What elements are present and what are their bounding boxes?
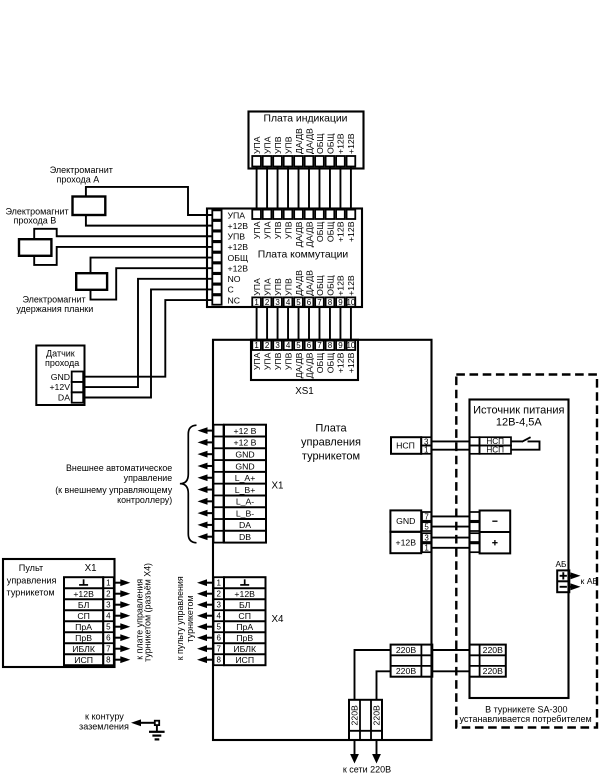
- PSU НСП pin squares: [470, 437, 480, 445]
- PSU power switch: [511, 440, 522, 442]
- svg-text:прохода В: прохода В: [14, 216, 57, 226]
- wire electromagnet A bottom to +12В: [86, 215, 212, 226]
- svg-text:УПА: УПА: [262, 221, 272, 239]
- svg-text:2: 2: [265, 298, 270, 307]
- svg-text:1: 1: [424, 544, 429, 553]
- svg-text:ОБЩ: ОБЩ: [315, 353, 325, 374]
- svg-text:прохода А: прохода А: [57, 174, 100, 184]
- PSU НСП label boxes: [480, 437, 512, 445]
- svg-text:220В: 220В: [396, 666, 416, 676]
- svg-text:+12В: +12В: [336, 221, 346, 242]
- +12В pin boxes 3 1: [422, 533, 431, 542]
- svg-text:ПрВ: ПрВ: [236, 633, 253, 643]
- svg-text:1: 1: [254, 298, 259, 307]
- turnstile control board (Плата управления турникетом): [213, 340, 432, 740]
- X4 label boxes: [224, 577, 266, 665]
- svg-text:Плата индикации: Плата индикации: [264, 114, 348, 125]
- svg-text:7: 7: [317, 341, 322, 350]
- svg-text:+12 В: +12 В: [234, 426, 257, 436]
- svg-text:турникетом: турникетом: [185, 595, 195, 642]
- svg-text:+12В: +12В: [346, 352, 356, 373]
- svg-text:1: 1: [424, 446, 429, 455]
- svg-text:220В: 220В: [396, 645, 416, 655]
- X1 label boxes: [224, 425, 266, 543]
- svg-text:ДА/ДВ: ДА/ДВ: [304, 270, 314, 296]
- svg-text:(к внешнему управляющему: (к внешнему управляющему: [55, 485, 173, 495]
- svg-text:2: 2: [265, 341, 270, 350]
- svg-text:УПВ: УПВ: [283, 221, 293, 239]
- wire electromagnet A top to УПА: [86, 187, 212, 215]
- GND connector label box: [390, 510, 421, 531]
- svg-text:УПВ: УПВ: [283, 352, 293, 370]
- wire GND pin5 to PSU: [431, 526, 469, 528]
- X4 arrows to control panel: [197, 579, 207, 586]
- svg-text:+12В: +12В: [336, 275, 346, 296]
- svg-text:220В: 220В: [350, 705, 360, 725]
- switching board top terminal squares: [252, 210, 261, 219]
- svg-text:4: 4: [286, 298, 291, 307]
- svg-text:2: 2: [106, 590, 111, 599]
- brace for external control bundle: [180, 425, 197, 543]
- svg-text:управления: управления: [301, 437, 361, 449]
- 10 wires: indication board to switching board: [256, 167, 258, 210]
- svg-text:1: 1: [254, 341, 259, 350]
- svg-text:УПВ: УПВ: [283, 278, 293, 296]
- svg-text:ДА/ДВ: ДА/ДВ: [294, 128, 304, 154]
- +12В connector label box: [390, 532, 421, 553]
- svg-text:ДА/ДВ: ДА/ДВ: [294, 352, 304, 378]
- wire bar-hold electromagnet top to ОБЩ: [91, 258, 213, 274]
- svg-text:+12В: +12В: [346, 275, 356, 296]
- svg-text:УПВ: УПВ: [283, 136, 293, 154]
- svg-text:Внешнее автоматическое: Внешнее автоматическое: [66, 463, 172, 473]
- svg-text:ИСП: ИСП: [74, 655, 93, 665]
- turnstile control panel box (Пульт управления турникетом): [3, 559, 115, 667]
- svg-text:ОБЩ: ОБЩ: [325, 275, 335, 296]
- svg-text:4: 4: [286, 341, 291, 350]
- passage sensor box (Датчик прохода): [36, 346, 84, 406]
- svg-text:+12В: +12В: [228, 263, 249, 273]
- svg-text:к АБ: к АБ: [581, 576, 599, 586]
- svg-text:10: 10: [346, 298, 355, 307]
- НСП pin boxes 3 1: [421, 437, 431, 445]
- switching board (Плата коммутации): [207, 209, 362, 308]
- svg-text:3: 3: [216, 601, 221, 610]
- svg-text:ОБЩ: ОБЩ: [315, 275, 325, 296]
- svg-text:4: 4: [106, 612, 111, 621]
- panel X1 pin1 earth symbol: [83, 579, 85, 585]
- X4 pin1 earth symbol: [244, 579, 246, 585]
- svg-text:+12В: +12В: [336, 133, 346, 154]
- GND pin boxes 7 5: [422, 512, 431, 521]
- svg-text:10: 10: [346, 341, 355, 350]
- svg-text:7: 7: [424, 512, 429, 521]
- svg-text:5: 5: [216, 623, 221, 632]
- svg-text:X1: X1: [272, 481, 284, 492]
- svg-text:ОБЩ: ОБЩ: [325, 133, 335, 154]
- X1 pin squares column: [214, 425, 224, 543]
- arrow to ground circuit: [131, 719, 141, 726]
- svg-text:ОБЩ: ОБЩ: [315, 222, 325, 243]
- svg-text:ОБЩ: ОБЩ: [325, 222, 335, 243]
- svg-text:АБ: АБ: [556, 559, 568, 569]
- svg-text:+12В: +12В: [396, 538, 417, 548]
- svg-text:L_A+: L_A+: [235, 473, 256, 483]
- wire electromagnet B bottom to +12В: [34, 247, 212, 265]
- svg-text:УПВ: УПВ: [273, 136, 283, 154]
- PSU minus plus terminal box: [480, 511, 511, 554]
- XS1 numbered pins 1-10: [252, 341, 261, 350]
- svg-text:прохода: прохода: [45, 358, 79, 368]
- wire +12В pin1 to PSU: [431, 547, 469, 549]
- 10 wires: switching board to XS1: [256, 307, 258, 342]
- svg-text:Плата: Плата: [315, 422, 347, 434]
- wire GND pin7 to PSU: [431, 515, 469, 517]
- svg-text:5: 5: [296, 341, 301, 350]
- svg-text:БЛ: БЛ: [239, 600, 250, 610]
- svg-text:ОБЩ: ОБЩ: [228, 253, 249, 263]
- svg-text:GND: GND: [235, 449, 254, 459]
- wire НСП pin3 to PSU: [431, 440, 469, 442]
- svg-text:ПрА: ПрА: [236, 622, 253, 632]
- svg-text:ИСП: ИСП: [235, 655, 254, 665]
- svg-text:УПА: УПА: [252, 136, 262, 154]
- svg-text:+12В: +12В: [336, 352, 346, 373]
- svg-text:В турникете SA-300: В турникете SA-300: [485, 704, 567, 714]
- svg-text:3: 3: [106, 601, 111, 610]
- svg-text:3: 3: [424, 534, 429, 543]
- svg-text:8: 8: [328, 298, 333, 307]
- svg-text:XS1: XS1: [295, 386, 314, 397]
- wire 220В row3 to PSU: [432, 670, 469, 672]
- svg-text:X4: X4: [272, 614, 285, 625]
- wire bar-hold electromagnet bottom to +12В: [91, 268, 213, 299]
- arrow к АБ (minus): [571, 583, 581, 590]
- arrow к АБ (plus): [571, 572, 581, 579]
- svg-text:ОБЩ: ОБЩ: [325, 353, 335, 374]
- svg-text:УПА: УПА: [252, 221, 262, 239]
- svg-text:заземления: заземления: [79, 721, 129, 731]
- svg-text:6: 6: [106, 634, 111, 643]
- svg-text:7: 7: [317, 298, 322, 307]
- electromagnet bar-hold coil: [76, 273, 107, 290]
- ground symbol: [156, 725, 158, 732]
- svg-text:БЛ: БЛ: [78, 600, 89, 610]
- wire 220В row1 to PSU: [432, 649, 469, 651]
- svg-text:ДА/ДВ: ДА/ДВ: [304, 352, 314, 378]
- svg-text:5: 5: [424, 523, 429, 532]
- ground terminal square: [155, 721, 159, 725]
- electromagnet A coil: [73, 197, 106, 216]
- svg-text:УПА: УПА: [252, 278, 262, 296]
- svg-text:Пульт: Пульт: [19, 563, 44, 573]
- PSU plus symbol: [492, 542, 497, 544]
- wire electromagnet B top to УПВ: [34, 229, 212, 239]
- svg-text:6: 6: [307, 298, 312, 307]
- svg-text:УПВ: УПВ: [228, 232, 246, 242]
- svg-text:3: 3: [275, 341, 280, 350]
- wire 220В right column to board connector: [377, 671, 391, 700]
- svg-text:ДА/ДВ: ДА/ДВ: [294, 270, 304, 296]
- arrow to mains right: [372, 754, 381, 764]
- svg-text:турникетом: турникетом: [302, 451, 360, 463]
- PSU minus symbol: [492, 520, 497, 522]
- svg-text:УПВ: УПВ: [273, 352, 283, 370]
- 220В connector (board right edge): [391, 645, 433, 677]
- PSU minus plus pin squares: [470, 512, 480, 521]
- svg-text:к сети 220В: к сети 220В: [343, 765, 391, 775]
- svg-text:СП: СП: [238, 611, 251, 621]
- svg-text:ПрА: ПрА: [75, 622, 92, 632]
- svg-text:УПВ: УПВ: [273, 278, 283, 296]
- svg-text:ДА/ДВ: ДА/ДВ: [304, 221, 314, 247]
- svg-text:12В-4,5А: 12В-4,5А: [496, 417, 543, 429]
- svg-text:6: 6: [307, 341, 312, 350]
- svg-text:L_A-: L_A-: [236, 497, 254, 507]
- svg-text:C: C: [228, 285, 234, 295]
- svg-text:УПА: УПА: [262, 136, 272, 154]
- mains 220В connector box: [349, 700, 382, 740]
- indication board (Плата индикации): [249, 112, 364, 169]
- power supply box (Источник питания): [470, 400, 569, 699]
- svg-text:управление: управление: [124, 473, 173, 483]
- svg-text:+12В: +12В: [73, 589, 94, 599]
- svg-text:GND: GND: [396, 516, 415, 526]
- svg-text:Источник питания: Источник питания: [473, 405, 564, 417]
- svg-text:3: 3: [275, 298, 280, 307]
- svg-text:управления: управления: [7, 575, 57, 585]
- svg-text:1: 1: [216, 579, 221, 588]
- svg-text:УПА: УПА: [228, 210, 246, 220]
- wire sensor DA to C: [83, 289, 212, 397]
- svg-text:ИБЛК: ИБЛК: [72, 644, 96, 654]
- НСП connector label box: [391, 437, 421, 454]
- svg-text:ОБЩ: ОБЩ: [315, 133, 325, 154]
- svg-text:GND: GND: [51, 372, 70, 382]
- panel arrows to control board: [120, 579, 130, 586]
- svg-text:НСП: НСП: [486, 446, 504, 455]
- svg-text:к контуру: к контуру: [85, 711, 124, 721]
- panel X1 numbered pin squares 1-8: [103, 577, 114, 665]
- indication board terminal squares: [252, 156, 261, 167]
- dashed border (installed by consumer): [456, 375, 597, 728]
- svg-text:L_B+: L_B+: [235, 485, 256, 495]
- svg-text:7: 7: [106, 645, 111, 654]
- wire +12В pin3 to PSU: [431, 537, 469, 539]
- svg-text:4: 4: [216, 612, 221, 621]
- svg-text:удержания планки: удержания планки: [16, 304, 93, 314]
- svg-text:УПА: УПА: [252, 352, 262, 370]
- svg-text:ДА/ДВ: ДА/ДВ: [294, 221, 304, 247]
- svg-text:X1: X1: [85, 563, 97, 574]
- svg-text:9: 9: [338, 298, 343, 307]
- svg-text:ИБЛК: ИБЛК: [233, 644, 257, 654]
- svg-text:устанавливается потребителем: устанавливается потребителем: [460, 714, 592, 724]
- svg-text:ПрВ: ПрВ: [75, 633, 92, 643]
- PSU 220В connector: [470, 645, 506, 677]
- svg-text:1: 1: [106, 579, 111, 588]
- svg-text:УПА: УПА: [262, 352, 272, 370]
- svg-text:5: 5: [106, 623, 111, 632]
- battery plus symbol: [560, 575, 567, 577]
- svg-text:турникетом: турникетом: [7, 588, 55, 598]
- X4 numbered pin squares 1-8: [214, 577, 225, 665]
- svg-text:УПА: УПА: [262, 278, 272, 296]
- panel X1 label boxes: [64, 577, 103, 665]
- switching board bottom numbered pins 1-10: [252, 297, 261, 306]
- svg-text:9: 9: [338, 341, 343, 350]
- electromagnet B coil: [19, 239, 51, 256]
- svg-text:+12В: +12В: [228, 221, 249, 231]
- sensor terminal squares: [72, 372, 84, 382]
- svg-text:6: 6: [216, 634, 221, 643]
- wire НСП pin1 to PSU: [431, 449, 469, 451]
- svg-text:+12V: +12V: [49, 382, 70, 392]
- svg-text:2: 2: [216, 590, 221, 599]
- svg-text:GND: GND: [235, 461, 254, 471]
- svg-text:турникетом (разъём Х4): турникетом (разъём Х4): [143, 563, 153, 662]
- svg-text:DA: DA: [239, 520, 251, 530]
- svg-text:8: 8: [328, 341, 333, 350]
- battery terminal box АБ: [557, 570, 569, 592]
- X1 arrows to external controller: [198, 427, 208, 434]
- wire sensor GND to NC: [83, 300, 212, 377]
- svg-text:220В: 220В: [483, 666, 503, 676]
- svg-text:+12 В: +12 В: [234, 438, 257, 448]
- svg-text:220В: 220В: [372, 705, 382, 725]
- svg-text:+12В: +12В: [234, 589, 255, 599]
- svg-text:5: 5: [296, 298, 301, 307]
- switching board left terminal squares: [212, 210, 221, 219]
- connector XS1 box: [251, 340, 358, 380]
- wire 220В left column to board connector: [355, 650, 391, 700]
- svg-text:НСП: НСП: [396, 441, 415, 451]
- svg-text:+12В: +12В: [346, 133, 356, 154]
- arrow to mains left: [350, 754, 359, 764]
- battery minus symbol: [560, 586, 567, 588]
- svg-text:+12В: +12В: [346, 221, 356, 242]
- svg-text:220В: 220В: [483, 645, 503, 655]
- svg-text:DA: DA: [58, 393, 70, 403]
- svg-text:СП: СП: [77, 611, 90, 621]
- svg-text:NO: NO: [228, 274, 241, 284]
- svg-text:L_B-: L_B-: [236, 508, 254, 518]
- svg-text:ДА/ДВ: ДА/ДВ: [304, 128, 314, 154]
- svg-text:7: 7: [216, 645, 221, 654]
- svg-text:8: 8: [216, 656, 221, 665]
- wire sensor +12V to NO: [83, 279, 212, 387]
- svg-text:DB: DB: [239, 532, 251, 542]
- svg-text:к пульту управления: к пульту управления: [175, 576, 185, 660]
- svg-text:NC: NC: [228, 295, 241, 305]
- svg-text:контроллеру): контроллеру): [117, 495, 172, 505]
- svg-text:Плата коммутации: Плата коммутации: [258, 250, 349, 261]
- svg-text:УПВ: УПВ: [273, 221, 283, 239]
- svg-text:+12В: +12В: [228, 242, 249, 252]
- svg-text:8: 8: [106, 656, 111, 665]
